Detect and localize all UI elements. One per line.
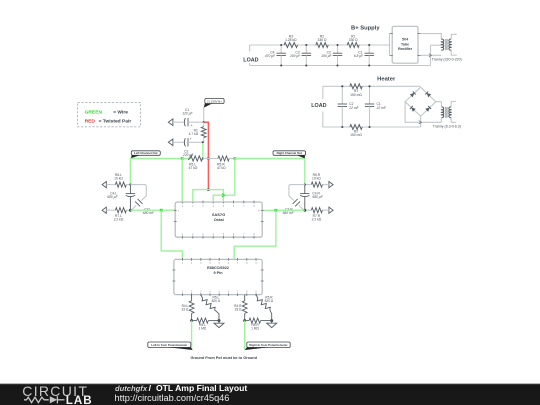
svg-text:Rectifier: Rectifier: [398, 47, 413, 51]
svg-text:Right In from Potentiometer: Right In from Potentiometer: [249, 343, 288, 347]
node heater C1 top: [368, 85, 370, 87]
svg-text:GREEN: GREEN: [85, 109, 103, 115]
twisted pair red wire: [204, 122, 208, 189]
svg-text:http://circuitlab.com/cr45q46: http://circuitlab.com/cr45q46: [115, 393, 230, 403]
tube rectifier U1 5V4: [390, 26, 421, 63]
wire rail mid3: [229, 158, 235, 160]
wire rail mid1: [182, 158, 190, 160]
node heater C2 top: [341, 85, 343, 87]
svg-text:150 mΩ: 150 mΩ: [350, 93, 362, 97]
svg-text:OTL Amp Final Layout: OTL Amp Final Layout: [156, 383, 247, 393]
flag Right Channel Out: [273, 151, 306, 159]
svg-text:= Wire: = Wire: [113, 109, 128, 115]
port P6 right out bottom: [329, 207, 333, 213]
svg-text:2.2 kΩ: 2.2 kΩ: [114, 217, 124, 221]
node C2 bottom: [336, 64, 338, 66]
flag Right In from Potentiometer: [245, 342, 290, 350]
wire J1 to node: [203, 107, 205, 122]
load LOAD (B+ supply): [243, 45, 258, 66]
svg-text:10 kΩ: 10 kΩ: [114, 177, 123, 181]
resistor R5.R 47k: [217, 156, 229, 170]
capacitor C4 470uF: [265, 45, 286, 66]
resistor R1 4.7k (amp): [189, 122, 207, 142]
wire green drop from R1 node to rail: [202, 143, 204, 158]
load LOAD (heater): [311, 86, 326, 127]
node C1 bottom: [368, 64, 370, 66]
node left rail drop E: [160, 209, 163, 212]
svg-text:680 mF: 680 mF: [283, 211, 295, 215]
node R1 bottom: [202, 141, 204, 143]
capacitor C3.R 680mF (series): [283, 199, 300, 215]
wire port to R6.L: [106, 184, 115, 186]
svg-text:10 kΩ: 10 kΩ: [312, 177, 321, 181]
node rail staircase drop: [233, 157, 236, 160]
svg-text:+: +: [191, 124, 193, 128]
capacitor C3.L 680mF (series): [135, 199, 155, 215]
svg-text:E88CC/6922: E88CC/6922: [207, 266, 229, 270]
wire rail left green: [130, 158, 182, 160]
wire green pin1 drop: [181, 159, 183, 203]
capacitor C2 220uF (amp): [182, 137, 194, 157]
wire green to left pot flag: [191, 321, 193, 350]
wire rectifier bottom-right to transformer: [421, 54, 442, 56]
resistor R2 330: [316, 34, 329, 47]
svg-text:Left In from Potentiometer: Left In from Potentiometer: [151, 343, 188, 347]
net label Heater title: [377, 77, 396, 83]
node heater C1 bottom: [368, 126, 370, 128]
svg-text:dutchgfx: dutchgfx: [115, 384, 148, 393]
svg-text:= Twisted Pair: = Twisted Pair: [99, 119, 132, 125]
svg-text:Ground From Pot must be to Gro: Ground From Pot must be to Ground: [190, 356, 257, 360]
wire R6.R to node: [305, 184, 312, 186]
wire green pin4 to rail: [213, 159, 235, 203]
wire port to R7.R: [322, 209, 329, 211]
flag Left In from Potentiometer: [148, 342, 193, 350]
node rail pin1 drop: [181, 157, 184, 160]
resistor R5.R 820 (diag): [256, 295, 274, 321]
svg-text:6.8 µF: 6.8 µF: [354, 54, 364, 58]
transformer T2 Tranny 6.3-0-6.3: [433, 102, 461, 129]
wire rail mid2: [203, 158, 218, 160]
wire bridge right vertex to transformer: [436, 101, 442, 103]
svg-text:J1 150V B+: J1 150V B+: [207, 99, 222, 103]
wire R7.R to node: [305, 209, 312, 211]
svg-text:47 kΩ: 47 kΩ: [217, 166, 226, 170]
diode D2 (bridge right-top): [425, 92, 431, 98]
node C3 top: [305, 44, 307, 46]
wire port to R6.R: [322, 184, 329, 186]
horn left channel: [130, 185, 146, 211]
resistor R6.L 10k: [114, 173, 126, 187]
svg-text:150 mΩ: 150 mΩ: [350, 133, 362, 137]
wire green left drop: [129, 159, 131, 185]
resistor R7.R 2.2k: [311, 208, 322, 222]
svg-text:680 µF: 680 µF: [107, 195, 118, 199]
wire C1 to node: [188, 121, 204, 123]
horn right channel: [289, 185, 305, 211]
svg-text:100 µF: 100 µF: [321, 54, 332, 58]
node R8.R left: [243, 319, 246, 322]
capacitor C4.R 680uF: [300, 185, 324, 211]
wire B+ bottom rail: [250, 45, 431, 65]
node red end: [207, 188, 210, 191]
wire port1 to C1: [173, 121, 185, 123]
net label B+ Supply title: [351, 26, 380, 32]
svg-text:5V4: 5V4: [402, 38, 408, 42]
svg-text:100 µF: 100 µF: [290, 54, 301, 58]
svg-text:33 Ω: 33 Ω: [181, 308, 188, 312]
ground right: [267, 321, 277, 328]
wire green to right pot flag: [244, 321, 246, 350]
node right out top: [304, 184, 306, 186]
svg-text:Heater: Heater: [377, 77, 396, 83]
wire R7.L to node: [126, 209, 130, 211]
node C2 top: [336, 44, 338, 46]
node C4 bottom: [280, 64, 282, 66]
wire center tap: [431, 44, 442, 46]
svg-text:22 mF: 22 mF: [348, 106, 359, 110]
node rail R5L/drop: [202, 157, 204, 159]
svg-text:330 Ω: 330 Ω: [349, 38, 358, 42]
svg-text:2.2 kΩ: 2.2 kΩ: [312, 217, 322, 221]
svg-text:LAB: LAB: [66, 394, 93, 405]
port P5 right out top: [329, 182, 333, 188]
node left out bottom: [129, 209, 132, 212]
wire port to R7.L: [106, 209, 115, 211]
svg-text:330 Ω: 330 Ω: [318, 38, 327, 42]
footer bar: [0, 384, 540, 405]
svg-text:680 mF: 680 mF: [143, 211, 155, 215]
capacitor C3 100uF: [290, 45, 311, 66]
wire green pin2-pin5: [193, 190, 224, 202]
wire green right drop: [304, 159, 306, 185]
svg-text:820 Ω: 820 Ω: [212, 299, 221, 303]
svg-text:LOAD: LOAD: [311, 103, 326, 109]
wire left output rail green: [130, 209, 175, 211]
svg-text:47 kΩ: 47 kΩ: [189, 166, 198, 170]
resistor R1 330 (supply): [347, 34, 359, 47]
resistor R8.R 1M: [245, 318, 272, 331]
svg-text:470 µF: 470 µF: [265, 54, 276, 58]
diode D1 (bridge left-top): [410, 92, 416, 98]
resistor R7.L 2.2k: [114, 208, 127, 222]
port P4 left out bottom: [102, 207, 106, 213]
note ground text: [190, 356, 257, 360]
op-amp U3 E88CC/6922 9-pin tube: [173, 258, 264, 296]
flag Left Channel Out: [130, 151, 160, 159]
node C3 bottom: [305, 64, 307, 66]
svg-text:Tranny (220-0-220): Tranny (220-0-220): [432, 57, 462, 61]
svg-text:Left Channel Out: Left Channel Out: [134, 151, 157, 155]
resistor R2 150mOhm (heater): [350, 124, 363, 137]
wire bridge bottom vertex to rail: [420, 116, 422, 127]
wire green E left path: [161, 210, 182, 259]
resistor R3 1.28k: [284, 34, 298, 47]
capacitor C4.L 680uF: [107, 185, 135, 211]
node C4 top: [280, 44, 282, 46]
port P2 (B+ in bottom): [168, 139, 173, 146]
wire B+ top rail: [250, 44, 390, 46]
op-amp U2 6AS7G Octal tube: [174, 201, 264, 239]
legend box: [78, 102, 141, 126]
svg-text:1 MΩ: 1 MΩ: [199, 327, 207, 331]
svg-text:B+ Supply: B+ Supply: [351, 26, 380, 32]
ground left: [214, 321, 224, 328]
capacitor C2 22mF (heater): [338, 86, 360, 127]
svg-text:820 Ω: 820 Ω: [265, 299, 274, 303]
wire right output rail green: [262, 209, 305, 211]
svg-text:33 Ω: 33 Ω: [235, 308, 242, 312]
resistor R5.L 820 (diag): [201, 295, 221, 321]
wire rectifier top-right to transformer: [421, 34, 442, 40]
svg-text:120 µF: 120 µF: [182, 111, 193, 115]
svg-text:RED: RED: [85, 119, 96, 125]
diode D4 (bridge right-bottom): [425, 106, 431, 112]
wire heater bottom rail: [323, 126, 421, 128]
resistor R8.L 1M: [192, 318, 219, 331]
wire bridge left vertex to secondary bottom: [405, 102, 441, 123]
circuitlab logo: [22, 383, 92, 405]
svg-text:Octal: Octal: [214, 217, 224, 222]
svg-text:LOAD: LOAD: [243, 57, 258, 63]
node R8.L right: [218, 319, 221, 322]
wire heater top rail: [323, 85, 421, 87]
svg-text:9 Pin: 9 Pin: [213, 271, 223, 275]
svg-text:Tube: Tube: [401, 42, 409, 46]
node right out bottom: [303, 209, 306, 212]
node red/rail junction: [207, 157, 210, 160]
hop crossing at bottom rail riser: [429, 54, 432, 57]
svg-text:680 µF: 680 µF: [312, 195, 323, 199]
svg-text:+: +: [190, 137, 192, 141]
node C1 top: [368, 44, 370, 46]
resistor R5.L 47k: [189, 156, 203, 170]
wire rectifier left bus: [389, 34, 391, 56]
credit text: [115, 383, 248, 403]
resistor R4.R 33: [234, 295, 247, 321]
hop crossing under bridge: [419, 121, 422, 124]
svg-text:Tranny (6.3-0-6.3): Tranny (6.3-0-6.3): [433, 125, 461, 129]
wire rail right green: [235, 158, 305, 160]
wire bridge diamond: [405, 87, 436, 116]
port P3 left out top: [102, 182, 106, 188]
wire C2 to node: [188, 141, 203, 143]
node heater C2 bottom: [341, 126, 343, 128]
svg-text:Right Channel Out: Right Channel Out: [277, 151, 302, 155]
capacitor C1 120uF: [182, 108, 193, 128]
node main B+ top: [203, 121, 205, 123]
node R8.R right: [270, 319, 273, 322]
resistor R1 150mOhm (heater): [350, 84, 363, 97]
wire R6.L to node: [126, 184, 130, 186]
svg-text:22 mF: 22 mF: [376, 106, 387, 110]
svg-text:1.28 kΩ: 1.28 kΩ: [285, 38, 297, 42]
capacitor C1 6.8uF (supply): [354, 45, 374, 66]
node R8.L left: [190, 319, 193, 322]
diode D3 (bridge left-bottom): [410, 106, 416, 112]
capacitor C2 100uF (supply): [321, 45, 342, 66]
flag J1 150V B+: [204, 98, 224, 107]
svg-text:6AS7G: 6AS7G: [212, 212, 225, 217]
capacitor mark (tilt) near R5.L: [188, 155, 192, 160]
port P1 (B+ in top): [168, 119, 173, 126]
hop green crossing: [222, 194, 225, 197]
svg-text:1 MΩ: 1 MΩ: [251, 327, 259, 331]
wire green F right path: [234, 210, 276, 259]
node left out top: [129, 184, 131, 186]
transformer T1 Tranny 220-0-220: [432, 34, 462, 61]
resistor R4.L 33: [181, 295, 194, 321]
wire port2 to C2: [173, 141, 185, 143]
capacitor C1 22mF (heater): [365, 86, 387, 127]
resistor R6.R 10k: [311, 173, 322, 187]
node right rail drop F: [274, 209, 277, 212]
svg-text:4.7 kΩ: 4.7 kΩ: [189, 132, 199, 136]
